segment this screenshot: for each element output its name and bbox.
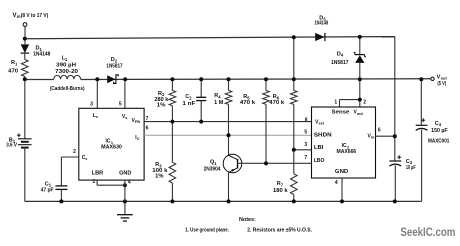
svg-text:470: 470 (8, 68, 18, 74)
svg-text:4: 4 (335, 180, 338, 186)
svg-text:s: s (125, 116, 127, 120)
svg-text:LBO: LBO (314, 158, 325, 164)
svg-text:47 pF: 47 pF (41, 188, 54, 194)
svg-text:(Caddell-Burns): (Caddell-Burns) (50, 86, 85, 92)
svg-text:6: 6 (378, 128, 381, 134)
svg-text:3: 3 (304, 142, 307, 148)
svg-text:1 M: 1 M (214, 100, 223, 106)
svg-text:SeekIC.com: SeekIC.com (400, 225, 455, 239)
svg-text:FB: FB (135, 120, 140, 124)
svg-text:1N4148: 1N4148 (33, 51, 50, 57)
svg-text:C: C (137, 137, 140, 141)
svg-text:1N4148: 1N4148 (315, 21, 329, 27)
svg-text:Sense: Sense (332, 110, 350, 116)
svg-text:set: set (319, 122, 325, 126)
svg-text:10 µF: 10 µF (406, 165, 416, 171)
svg-text:LBI: LBI (314, 145, 324, 151)
svg-text:7: 7 (146, 116, 149, 122)
svg-text:Notes:: Notes: (239, 217, 256, 223)
svg-text:470 k: 470 k (240, 100, 256, 106)
svg-text:7: 7 (304, 155, 307, 161)
svg-text:1N5817: 1N5817 (331, 60, 349, 66)
svg-text:5: 5 (304, 130, 307, 136)
svg-text:2. Resistors are ±5% U.O.S.: 2. Resistors are ±5% U.O.S. (247, 228, 312, 234)
svg-text:6: 6 (146, 125, 149, 131)
svg-text:MAX630: MAX630 (101, 144, 122, 150)
svg-text:2: 2 (73, 149, 76, 155)
svg-text:3: 3 (90, 102, 93, 108)
svg-text:8: 8 (305, 118, 308, 124)
svg-text:GND: GND (335, 169, 349, 175)
svg-text:(8 V to 17 V): (8 V to 17 V) (21, 13, 49, 19)
svg-text:1%: 1% (155, 174, 164, 180)
svg-text:1 nF: 1 nF (182, 101, 195, 107)
svg-text:470 k: 470 k (269, 100, 284, 106)
svg-text:MAX666: MAX666 (337, 149, 357, 155)
svg-text:1: 1 (92, 179, 95, 185)
svg-text:LBR: LBR (92, 171, 104, 177)
svg-text:7300-20: 7300-20 (55, 69, 78, 75)
svg-text:1. Use ground plane.: 1. Use ground plane. (185, 228, 229, 234)
svg-text:1N5817: 1N5817 (106, 63, 122, 69)
svg-text:MAXC001: MAXC001 (428, 139, 450, 145)
svg-text:out: out (357, 112, 364, 116)
svg-text:3.6 V: 3.6 V (6, 143, 17, 149)
svg-text:5: 5 (119, 102, 122, 108)
svg-text:180 k: 180 k (273, 188, 288, 194)
svg-text:(5 V): (5 V) (437, 81, 446, 87)
svg-text:GND: GND (119, 171, 132, 177)
svg-text:390 µH: 390 µH (56, 63, 76, 69)
svg-text:4: 4 (128, 179, 131, 185)
svg-text:1%: 1% (157, 102, 166, 108)
svg-text:SHDN: SHDN (314, 132, 332, 138)
svg-text:150 µF: 150 µF (431, 128, 447, 134)
svg-text:2: 2 (363, 100, 366, 106)
svg-text:2N3904: 2N3904 (204, 167, 221, 173)
svg-text:1: 1 (334, 99, 337, 105)
